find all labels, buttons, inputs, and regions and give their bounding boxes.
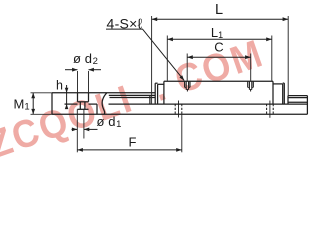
svg-text:L1: L1 bbox=[211, 25, 223, 40]
dimension L1 bbox=[167, 37, 271, 41]
screw hole 1 (tapped hole S) bbox=[185, 81, 190, 91]
rail upper second line right bbox=[288, 97, 307, 99]
plate right edge bbox=[306, 96, 308, 115]
table top surface bbox=[164, 80, 273, 82]
counterbore left wall bbox=[77, 93, 79, 102]
table body right edge bbox=[272, 81, 274, 104]
section internal line right of hole bbox=[89, 103, 98, 105]
svg-text:4-S×ℓ: 4-S×ℓ bbox=[107, 16, 143, 32]
leader 4-SxL bbox=[106, 29, 184, 81]
rail left-end vertical bbox=[149, 95, 151, 104]
dimension d1 bbox=[72, 127, 98, 131]
svg-text:C: C bbox=[214, 40, 223, 55]
section internal step vertical bbox=[96, 104, 98, 114]
rail right-start vertical bbox=[287, 96, 289, 105]
F right extension bbox=[181, 114, 183, 152]
rail upper edge second line left bbox=[110, 97, 156, 99]
base hole 1 centerline stub bbox=[178, 101, 180, 118]
rail bottom edge right bbox=[288, 101, 307, 103]
lower hole left edge (F extension) bbox=[76, 109, 78, 152]
table right cap top bbox=[283, 82, 285, 84]
counterbore right wall bbox=[88, 93, 90, 102]
dimension F bbox=[77, 148, 182, 152]
L1 left extension bbox=[166, 36, 168, 81]
rail upper edge right segment bbox=[288, 95, 307, 97]
hidden line under hole bbox=[78, 108, 89, 110]
C left extension bbox=[186, 54, 188, 82]
dimension C bbox=[187, 55, 251, 59]
section internal line left of hole bbox=[65, 103, 78, 105]
d1 hole left wall bbox=[79, 102, 81, 110]
svg-text:L: L bbox=[215, 2, 223, 18]
table left shoulder bbox=[158, 83, 164, 85]
svg-text:M1: M1 bbox=[14, 97, 30, 113]
base plate bottom line bbox=[52, 113, 307, 115]
table right cap inner wall bbox=[282, 84, 284, 104]
base plate top surface (section ridge line) bbox=[52, 92, 155, 94]
dimension d2 bbox=[65, 68, 101, 72]
table right shoulder bbox=[273, 83, 283, 85]
table right cap outer wall bbox=[283, 83, 285, 104]
base hole 2 centerline stub bbox=[269, 101, 271, 118]
L left extension bbox=[151, 16, 153, 104]
d2 right extension bbox=[88, 71, 90, 93]
counterbore floor bbox=[78, 101, 89, 103]
dimension h bbox=[65, 85, 69, 109]
svg-text:F: F bbox=[129, 134, 137, 149]
break line bbox=[102, 93, 107, 115]
rail upper edge left segment bbox=[109, 94, 155, 96]
table body left edge bbox=[163, 81, 165, 104]
table left cap top bbox=[155, 82, 157, 84]
L1 right extension bbox=[271, 36, 273, 81]
svg-text:ø d2: ø d2 bbox=[73, 51, 98, 67]
plate/rail interface line bbox=[109, 103, 308, 105]
dimension M1 bbox=[31, 93, 35, 115]
M1 top extension bbox=[31, 92, 53, 94]
table left cap inner wall bbox=[157, 84, 159, 104]
hidden base hole 1 (dashed) bbox=[175, 104, 182, 114]
L right extension bbox=[287, 16, 289, 96]
d1 hole right wall bbox=[84, 102, 86, 110]
d2 left extension bbox=[77, 71, 79, 93]
M1 bottom extension bbox=[31, 113, 53, 115]
section left edge bbox=[51, 93, 53, 115]
table left cap outer wall bbox=[154, 83, 156, 104]
C right extension bbox=[250, 54, 252, 82]
watermark ZCQOLI.COM bbox=[0, 30, 269, 166]
hidden base hole 2 (dashed) bbox=[267, 104, 274, 114]
screw hole 2 (tapped hole S) bbox=[248, 81, 254, 91]
svg-text:h: h bbox=[56, 79, 63, 93]
dimension L bbox=[152, 17, 289, 21]
dimension extension lines bbox=[31, 16, 289, 152]
lower hole right edge (d1 extension) bbox=[83, 109, 85, 138]
